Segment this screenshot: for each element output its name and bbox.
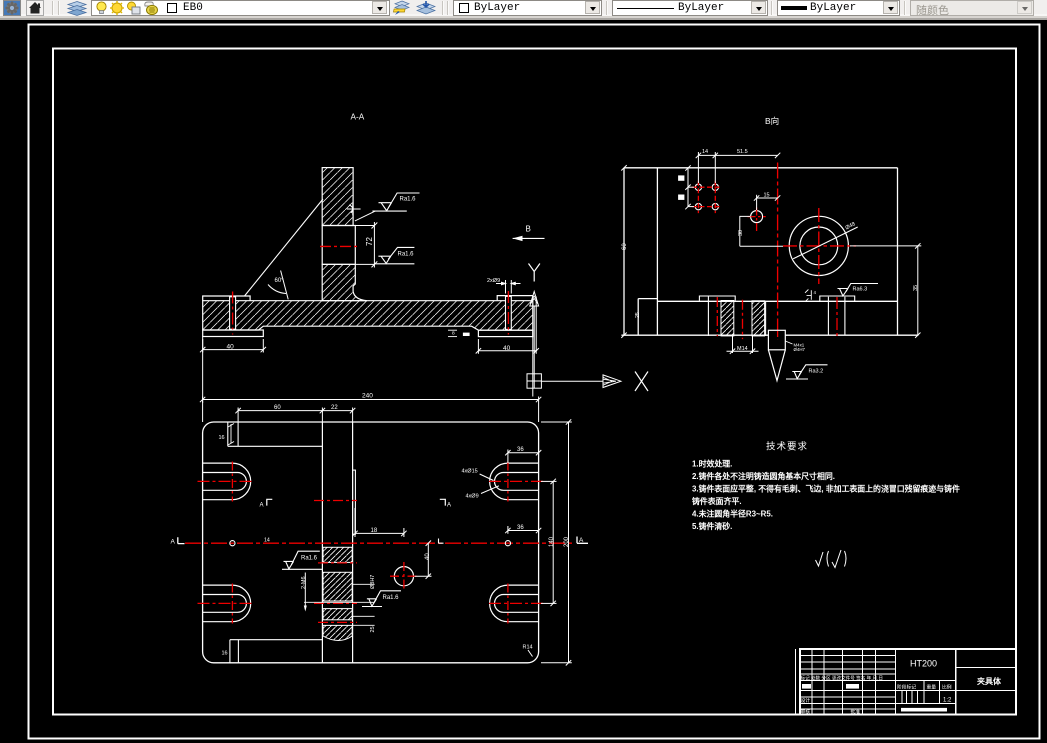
hole right walls	[827, 297, 829, 336]
svg-text:比例: 比例	[942, 683, 952, 690]
svg-text:60: 60	[274, 405, 281, 411]
red centerline hole	[320, 245, 358, 247]
roughness Ra1.6 mid	[374, 247, 414, 263]
hatch column lower	[322, 264, 367, 300]
slot BR centerlines	[489, 602, 544, 604]
lineweight combo	[777, 0, 900, 16]
left dim 60	[621, 165, 626, 338]
other-roughness mark	[816, 550, 847, 568]
d48 leader	[793, 227, 858, 259]
dim 14 / 51.5	[696, 152, 781, 183]
outline rounded rect	[203, 422, 539, 663]
svg-text:200: 200	[564, 536, 570, 547]
extension lines to 240 dim	[202, 337, 204, 404]
svg-text:8: 8	[452, 331, 455, 337]
slot BR	[490, 585, 539, 622]
small node circles on centerline	[230, 541, 235, 546]
svg-text:铸件表面齐平.: 铸件表面齐平.	[691, 496, 742, 506]
button house	[26, 0, 44, 16]
svg-text:A: A	[171, 539, 176, 546]
section mark A mid-right	[440, 499, 446, 505]
left mini dim	[685, 165, 694, 209]
svg-text:B: B	[526, 225, 531, 234]
tick on centerline	[439, 539, 444, 544]
pad left on step	[699, 296, 735, 301]
hatch block 3	[323, 609, 352, 620]
title block	[796, 649, 1016, 714]
svg-text:22: 22	[331, 405, 338, 411]
rib edge	[245, 199, 324, 296]
foot height dim 8	[448, 330, 457, 336]
left foot dim	[200, 339, 266, 353]
dim 240	[200, 397, 541, 423]
big circle outer	[789, 216, 848, 275]
dim 40 vertical	[415, 541, 432, 579]
top notch	[228, 422, 323, 446]
toolbar	[0, 0, 1047, 20]
svg-text:40: 40	[227, 344, 235, 351]
svg-text:72: 72	[365, 237, 374, 246]
M14 dim	[727, 336, 759, 354]
red square centerlines	[692, 181, 722, 213]
lock/sun small	[126, 1, 141, 15]
svg-text:1:2: 1:2	[943, 698, 952, 704]
tab on band	[353, 470, 356, 534]
svg-text:夹具体: 夹具体	[977, 676, 1002, 686]
hole box in column	[322, 226, 355, 265]
slot TR centerlines	[489, 480, 544, 482]
svg-text:Ra1.6: Ra1.6	[398, 252, 415, 258]
counterbore wall left	[707, 296, 709, 336]
red lines across band	[318, 562, 357, 564]
Ra3.2	[786, 365, 828, 379]
dim 36 top	[505, 450, 541, 464]
svg-text:Ø4H7: Ø4H7	[794, 347, 806, 352]
svg-text:4.未注圆角半径R3~R5.: 4.未注圆角半径R3~R5.	[692, 509, 773, 519]
angle dim 60	[268, 271, 288, 300]
svg-text:14: 14	[264, 538, 270, 544]
notch depth dim top	[228, 424, 234, 446]
technical requirements	[691, 441, 960, 532]
left hole centerline	[232, 292, 234, 335]
datum cross	[347, 203, 361, 216]
view arrow B	[513, 225, 545, 242]
box leader small circle	[740, 216, 751, 246]
svg-text:重量: 重量	[927, 683, 937, 690]
thread hatch left	[721, 301, 734, 336]
central band	[321, 422, 323, 663]
section view A-A	[200, 113, 545, 404]
sun	[110, 1, 124, 15]
UCS icon	[527, 264, 648, 392]
svg-text:A: A	[579, 537, 584, 544]
right section rows	[956, 667, 1016, 669]
svg-text:Ra3.2: Ra3.2	[809, 368, 824, 374]
layer previous	[416, 0, 436, 16]
svg-text:A: A	[260, 503, 264, 509]
svg-text:4xØ15: 4xØ15	[462, 469, 478, 475]
svg-text:140: 140	[549, 536, 555, 547]
printer/plot icon	[143, 1, 161, 15]
thread red lines	[716, 297, 718, 336]
main centerline	[185, 542, 572, 544]
pin callout	[785, 341, 792, 344]
pad right on step	[820, 296, 855, 301]
svg-text:Ra1.6: Ra1.6	[400, 197, 417, 203]
layer name	[183, 2, 203, 14]
plan view	[171, 393, 589, 666]
svg-text:1.时效处理.: 1.时效处理.	[692, 459, 732, 469]
svg-text:16: 16	[219, 435, 225, 441]
right hole centerline	[507, 291, 509, 335]
counterbore wall right	[765, 301, 767, 336]
svg-text:M14: M14	[737, 346, 748, 352]
dim 36 bottom	[505, 526, 541, 534]
section mark A mid-left	[267, 499, 273, 505]
right foot	[478, 330, 532, 336]
ext line across band	[304, 601, 375, 603]
svg-text:40: 40	[425, 553, 431, 560]
svg-text:15: 15	[764, 193, 770, 199]
hatch block 4	[323, 625, 352, 640]
slot BL centerlines	[198, 602, 254, 604]
middle section	[955, 649, 957, 714]
roughness Ra1.6 top	[372, 193, 419, 211]
svg-text:A-A: A-A	[351, 113, 365, 122]
band crossing centerline	[314, 500, 357, 502]
svg-text:批准: 批准	[851, 708, 861, 715]
outline	[621, 168, 918, 335]
X axis	[541, 380, 603, 382]
make layer current	[393, 0, 410, 16]
hole right red line	[836, 297, 838, 337]
main centerline vertical	[777, 163, 779, 342]
svg-text:Ra1.6: Ra1.6	[301, 556, 318, 562]
svg-text:40: 40	[503, 345, 511, 352]
counterbore callout 2xM9	[496, 280, 521, 294]
color combo	[453, 0, 602, 16]
svg-text:R14: R14	[523, 645, 533, 651]
svg-text:标记 处数 分区 更改文件号 签名 年.月.日: 标记 处数 分区 更改文件号 签名 年.月.日	[801, 675, 883, 682]
svg-text:审核: 审核	[801, 708, 811, 715]
dim 15	[754, 195, 780, 210]
svg-text:Ø8H7: Ø8H7	[370, 575, 376, 589]
view B	[621, 116, 921, 381]
svg-text:35: 35	[913, 285, 919, 291]
left foot	[203, 330, 264, 337]
big circle inner	[800, 227, 838, 265]
svg-text:60: 60	[622, 243, 628, 250]
svg-text:36: 36	[517, 525, 524, 531]
locating pin	[768, 330, 785, 380]
svg-text:B向: B向	[765, 116, 779, 126]
svg-text:阶段标记: 阶段标记	[897, 683, 916, 690]
svg-text:HT200: HT200	[910, 659, 937, 669]
right dim 140	[541, 479, 557, 606]
left grid verticals	[811, 649, 813, 714]
svg-text:30: 30	[738, 230, 744, 236]
linetype combo	[612, 0, 768, 16]
slot TL centerlines	[198, 480, 254, 482]
big circle centerlines	[818, 208, 820, 284]
Ra6.3	[838, 284, 879, 296]
bulb	[95, 1, 108, 15]
svg-text:设计: 设计	[801, 697, 811, 704]
slot TR	[490, 463, 539, 500]
title texts	[801, 659, 1002, 716]
right foot dim	[476, 297, 539, 354]
svg-text:A: A	[447, 503, 451, 509]
svg-text:5.铸件清砂.: 5.铸件清砂.	[692, 521, 732, 531]
svg-text:25: 25	[370, 626, 376, 632]
svg-text:2.铸件各处不注明铸造圆角基本尺寸相同.: 2.铸件各处不注明铸造圆角基本尺寸相同.	[692, 471, 835, 481]
svg-text:Ra1.6: Ra1.6	[383, 595, 400, 601]
mini dim 4	[805, 290, 811, 302]
roughness Ra1.6 plan lower	[362, 591, 401, 607]
thread hatch right	[752, 301, 765, 336]
svg-text:4xØ9: 4xØ9	[466, 493, 479, 499]
slot BL	[203, 585, 251, 622]
svg-text:16: 16	[222, 651, 228, 657]
dim row2	[235, 408, 355, 423]
svg-text:2xØ9: 2xØ9	[487, 278, 500, 284]
plot style combo disabled	[910, 0, 1034, 16]
4 hole circles	[695, 184, 718, 210]
hatch column upper	[322, 168, 353, 226]
right pad	[497, 296, 533, 301]
left pad	[203, 296, 250, 301]
right dim 35	[915, 243, 920, 338]
hatch block 2	[323, 572, 352, 601]
layer combo	[91, 0, 390, 16]
bottom notch	[230, 640, 323, 663]
right bolt hole	[506, 296, 512, 329]
column hole dim box	[355, 222, 377, 268]
leader to roughness	[355, 211, 376, 221]
Y axis	[533, 306, 535, 374]
right dim 200	[541, 419, 572, 665]
button gear (layer properties)	[3, 0, 21, 16]
dim 18	[352, 508, 406, 537]
slot TL	[203, 463, 251, 500]
svg-text:2-M6: 2-M6	[301, 576, 307, 589]
svg-text:技术要求: 技术要求	[766, 441, 808, 453]
svg-text:25: 25	[635, 312, 641, 318]
svg-text:18: 18	[371, 528, 378, 534]
hatch base body	[203, 301, 533, 331]
svg-text:51.5: 51.5	[737, 149, 748, 155]
roughness Ra1.6 plan upper	[282, 551, 322, 569]
svg-text:240: 240	[362, 393, 373, 400]
svg-text:60°: 60°	[275, 278, 285, 284]
svg-text:14: 14	[702, 149, 708, 155]
layers stack icon	[66, 0, 88, 16]
hole circle	[394, 567, 413, 586]
svg-text:3.铸件表面应平整, 不得有毛刺、飞边, 非加工表面上的浇冒: 3.铸件表面应平整, 不得有毛刺、飞边, 非加工表面上的浇冒口残留痕迹与铸件	[692, 484, 960, 494]
section mark A right	[577, 537, 588, 544]
svg-text:36: 36	[517, 447, 524, 453]
left grid rows	[800, 655, 896, 657]
hatch block 1	[323, 547, 352, 562]
left bolt hole	[230, 297, 236, 329]
section mark A left	[178, 537, 185, 543]
svg-text:Ra6.3: Ra6.3	[853, 287, 868, 293]
color swatch	[167, 3, 177, 13]
small circle	[751, 211, 763, 223]
